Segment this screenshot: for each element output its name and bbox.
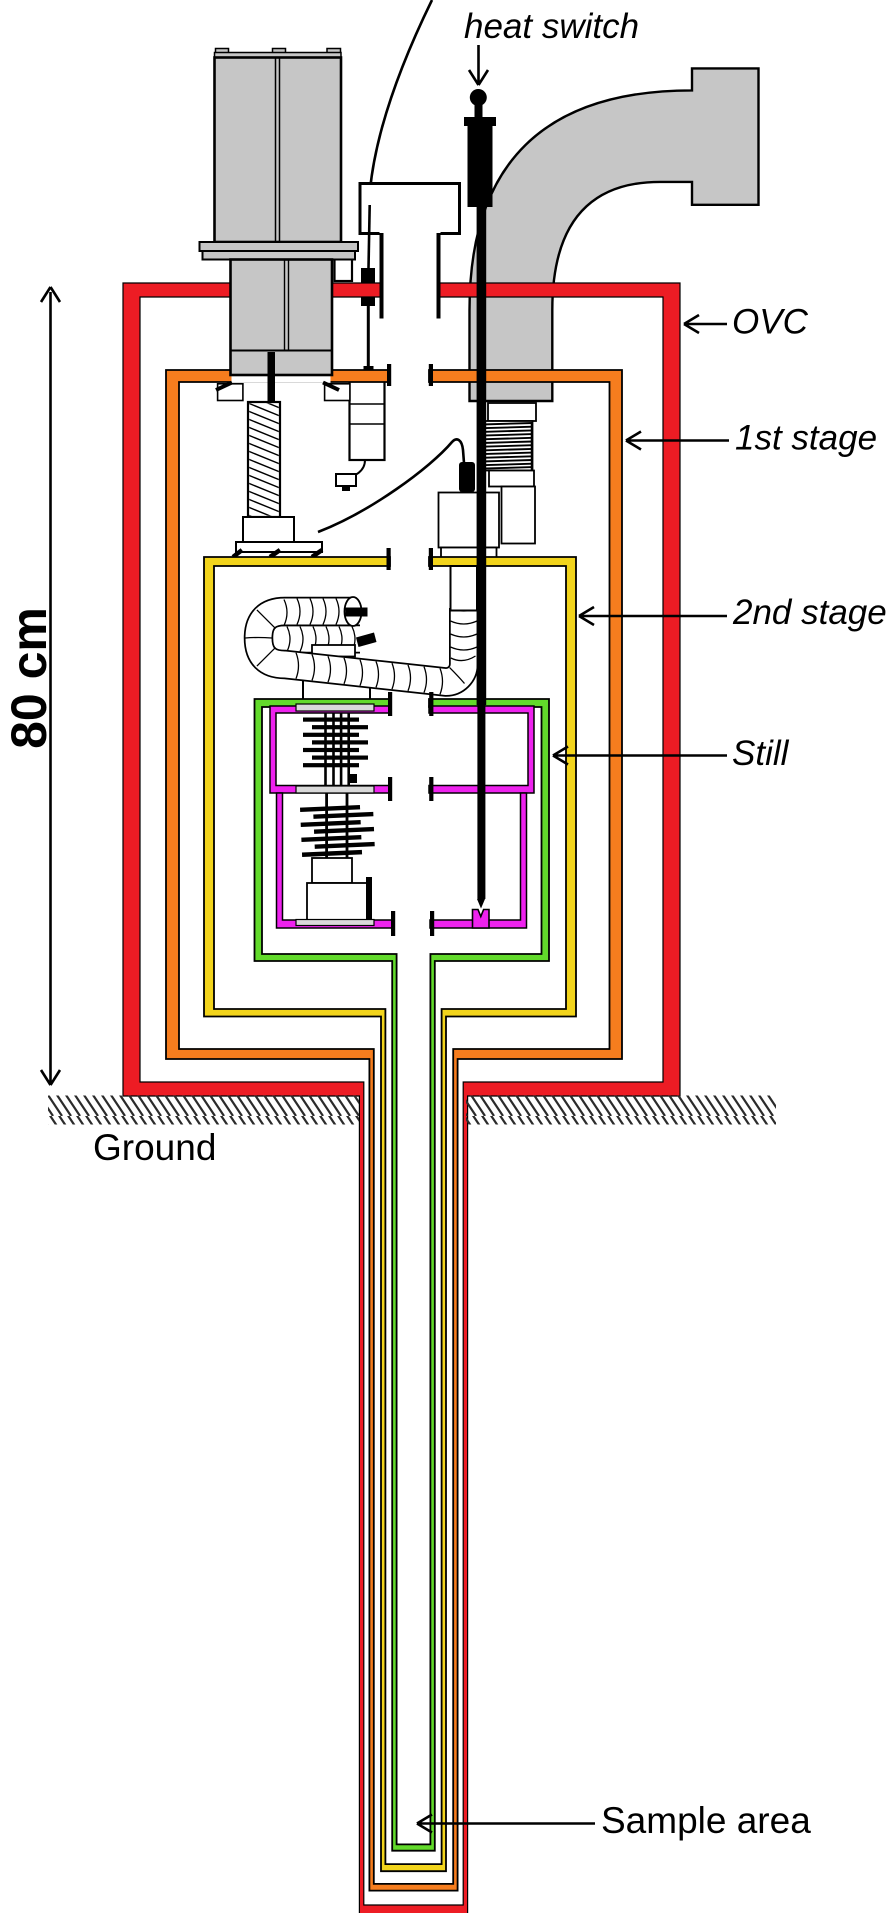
svg-text:80 cm: 80 cm — [1, 607, 57, 749]
svg-text:OVC: OVC — [732, 303, 809, 342]
svg-text:1st stage: 1st stage — [735, 419, 877, 458]
svg-text:Sample area: Sample area — [601, 1800, 811, 1841]
svg-text:heat switch: heat switch — [464, 7, 639, 46]
svg-text:Ground: Ground — [93, 1127, 216, 1168]
svg-text:Still: Still — [732, 734, 790, 773]
svg-text:2nd stage: 2nd stage — [732, 593, 887, 632]
